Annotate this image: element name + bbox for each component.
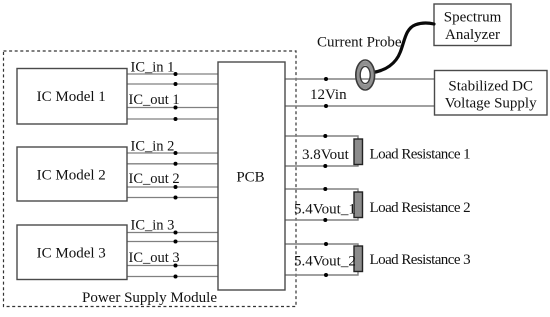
- svg-text:Spectrum: Spectrum: [444, 10, 502, 26]
- svg-text:5.4Vout_2: 5.4Vout_2: [294, 254, 356, 270]
- svg-text:IC_out 3: IC_out 3: [129, 250, 180, 266]
- junction dot IC2 out b: [174, 196, 178, 200]
- junction dot IC1 out b: [174, 117, 178, 121]
- wire IC1 out line a: [127, 107, 218, 109]
- svg-text:IC_in 1: IC_in 1: [131, 60, 175, 76]
- current probe toroid: [356, 60, 375, 90]
- svg-text:Current Probe: Current Probe: [317, 35, 402, 51]
- svg-text:Load Resistance 2: Load Resistance 2: [370, 200, 471, 216]
- Spectrum Analyzer box: [434, 4, 511, 46]
- wire 5.4Vout_1 bottom: [285, 216, 358, 220]
- junction dot IC1 out a: [174, 106, 178, 110]
- PCB box: [218, 62, 285, 290]
- junction dot 3.8Vout bottom: [323, 164, 327, 168]
- junction dot IC2 out a: [174, 185, 178, 189]
- junction dot 5.4Vout_2 bottom: [324, 273, 328, 277]
- junction dot 3.8Vout top: [323, 134, 327, 138]
- svg-text:5.4Vout_1: 5.4Vout_1: [294, 202, 356, 218]
- wire IC2 in line a: [127, 152, 218, 154]
- svg-text:Power Supply Module: Power Supply Module: [82, 290, 217, 306]
- load resistor R1: [354, 139, 363, 165]
- IC Model 1 box: [17, 69, 127, 125]
- svg-text:Stabilized DC: Stabilized DC: [448, 78, 533, 94]
- svg-text:Voltage Supply: Voltage Supply: [445, 96, 537, 112]
- wire IC3 out line b: [127, 276, 218, 278]
- junction dot 5.4Vout_2 top: [324, 242, 328, 246]
- wire 5.4Vout_1 top: [285, 189, 358, 193]
- svg-text:Load Resistance 1: Load Resistance 1: [370, 147, 471, 163]
- wire 3.8Vout top: [285, 136, 358, 140]
- wire 5.4Vout_2 bottom: [285, 271, 358, 275]
- wire 5.4Vout_2 top: [285, 244, 358, 248]
- svg-text:Analyzer: Analyzer: [445, 27, 500, 43]
- wire 12Vin bottom: [285, 105, 435, 107]
- junction dot 12Vin bottom: [324, 104, 328, 108]
- Stabilized DC Voltage Supply box: [435, 71, 548, 116]
- wire IC1 in line a: [127, 73, 218, 75]
- IC Model 2 box: [17, 147, 127, 201]
- wire IC1 in line b: [127, 83, 218, 85]
- power supply module dashed boundary: [4, 51, 297, 307]
- wire IC3 out line a: [127, 265, 218, 267]
- wire IC3 in line a: [127, 232, 218, 234]
- junction dot IC2 in a: [174, 151, 178, 155]
- svg-text:12Vin: 12Vin: [310, 87, 347, 103]
- junction dot IC3 out a: [174, 264, 178, 268]
- junction dot IC1 in b: [174, 82, 178, 86]
- junction dot IC3 in b: [174, 240, 178, 244]
- junction dot 12Vin top: [324, 77, 328, 81]
- wire 12Vin top: [285, 78, 435, 80]
- junction dot IC2 in b: [174, 162, 178, 166]
- wire IC2 in line b: [127, 163, 218, 165]
- wire IC2 out line a: [127, 186, 218, 188]
- junction dot IC3 out b: [174, 275, 178, 279]
- wire 3.8Vout bottom: [285, 163, 358, 166]
- load resistor R2: [354, 192, 363, 218]
- svg-text:PCB: PCB: [236, 170, 264, 186]
- IC Model 3 box: [17, 225, 127, 280]
- wire IC1 out line b: [127, 118, 218, 120]
- svg-text:IC_in 3: IC_in 3: [131, 218, 175, 234]
- junction dot 5.4Vout_1 top: [323, 187, 327, 191]
- junction dot IC3 in a: [174, 231, 178, 235]
- junction dot IC1 in a: [174, 72, 178, 76]
- svg-text:IC Model 1: IC Model 1: [37, 89, 106, 105]
- current probe cable to spectrum analyzer: [372, 23, 434, 73]
- svg-text:IC Model 3: IC Model 3: [37, 245, 106, 261]
- svg-text:3.8Vout: 3.8Vout: [302, 147, 350, 163]
- svg-text:Load Resistance 3: Load Resistance 3: [370, 252, 471, 268]
- svg-text:IC Model 2: IC Model 2: [37, 167, 106, 183]
- junction dot 5.4Vout_1 bottom: [323, 218, 327, 222]
- svg-text:IC_out 2: IC_out 2: [129, 171, 180, 187]
- wire IC3 in line b: [127, 241, 218, 243]
- wire IC2 out line b: [127, 197, 218, 199]
- svg-text:IC_in 2: IC_in 2: [131, 138, 175, 154]
- load resistor R3: [354, 246, 363, 272]
- svg-text:IC_out 1: IC_out 1: [129, 92, 180, 108]
